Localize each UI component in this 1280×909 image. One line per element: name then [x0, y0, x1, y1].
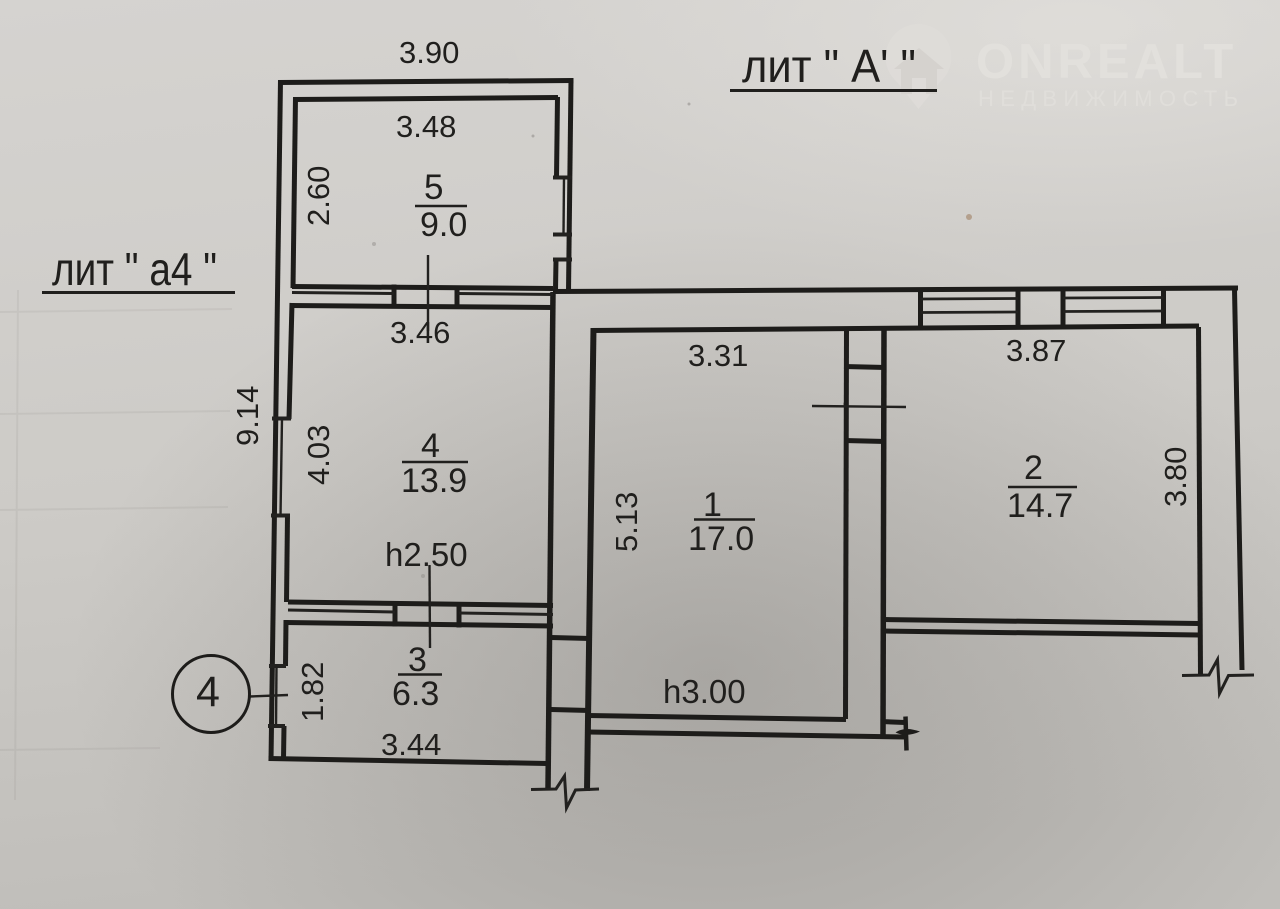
room 5 right window jamb bottom — [553, 258, 572, 262]
dimension tick through band 4/3 — [428, 565, 431, 648]
wall band 4/3 bottom line — [286, 623, 554, 627]
room 3 left window glazing — [275, 666, 278, 726]
room 5 right window jamb top — [553, 176, 572, 180]
thin lines: window glazing, dimension ticks, break lines — [249, 178, 1254, 809]
logo pin icon — [886, 24, 952, 109]
wall band between rooms 5 and 4: top line — [292, 287, 553, 289]
svg-text:9.0: 9.0 — [420, 206, 467, 244]
room 2 bottom outer wall — [884, 631, 1199, 635]
svg-text:9.14: 9.14 — [230, 386, 265, 446]
svg-text:2.60: 2.60 — [301, 166, 336, 226]
top wall window 1 left jamb — [918, 291, 923, 328]
лит А' underline — [730, 89, 937, 92]
ONREALT watermark logo — [886, 24, 1238, 111]
wall band 4/3 middle line right — [459, 613, 553, 615]
room 5 fraction line — [415, 205, 467, 208]
dimension tick below room 5 label — [427, 255, 429, 331]
top wall window 1 glazing lower — [921, 311, 1019, 314]
svg-text:5.13: 5.13 — [609, 492, 644, 552]
svg-text:ONREALT: ONREALT — [976, 35, 1237, 89]
room 4 inner left wall upper — [289, 303, 292, 419]
room 3 left window jamb top — [269, 664, 286, 668]
stamp circle 4 — [173, 656, 250, 733]
top wall window 1 glazing upper — [921, 297, 1019, 300]
faint paper specks — [372, 103, 972, 579]
wall band 5/4 bottom line — [290, 306, 553, 308]
partition bottom short line — [881, 722, 905, 723]
room 3 bottom wall — [269, 759, 548, 764]
лит А' title — [42, 40, 937, 295]
svg-text:3.44: 3.44 — [381, 727, 441, 762]
left outer wall full height — [271, 80, 281, 761]
room 4 inner left wall lower — [287, 515, 288, 602]
svg-text:3.87: 3.87 — [1006, 333, 1066, 368]
top wall window 2 glazing upper — [1063, 296, 1164, 299]
svg-text:3.80: 3.80 — [1158, 447, 1193, 507]
room 4 left window jamb bottom — [271, 514, 290, 518]
svg-text:13.9: 13.9 — [401, 462, 467, 500]
partition rung 1 — [844, 367, 886, 368]
svg-text:3.31: 3.31 — [688, 338, 748, 373]
wall band 5/4 jamb right — [455, 286, 460, 310]
room 5 outer top wall — [278, 81, 574, 83]
room 5 right window jamb mid — [553, 233, 572, 237]
wall band 5/4 jamb left — [392, 285, 397, 309]
building top wall inner (right section) — [591, 326, 1199, 331]
wall band 4/3 jamb right — [457, 602, 462, 628]
svg-text:4.03: 4.03 — [301, 425, 336, 485]
room 3 fraction line — [398, 673, 442, 676]
building right wall inner (room 2) — [1199, 327, 1201, 675]
building right wall outer — [1235, 289, 1243, 670]
top wall window 1 right jamb — [1016, 291, 1021, 328]
room 5 inner left wall — [293, 97, 296, 288]
svg-text:лит " А' ": лит " А' " — [742, 40, 916, 92]
top wall window 2 left jamb — [1061, 291, 1066, 328]
dimension tick through partition 1/2 — [812, 406, 906, 407]
section mark vertical tick — [906, 717, 907, 751]
partition rung 2 — [844, 441, 886, 442]
svg-text:лит " а4 ": лит " а4 " — [52, 243, 217, 295]
corridor rung at y638 — [551, 638, 590, 639]
svg-text:4: 4 — [421, 427, 440, 465]
wall band 4/3 middle line left — [288, 610, 395, 612]
room 5 right outer wall — [569, 80, 572, 292]
svg-text:3.46: 3.46 — [390, 315, 450, 350]
building top wall outer (right section) — [553, 288, 1238, 292]
svg-text:h3.00: h3.00 — [663, 673, 746, 710]
room 5 right inner wall upper — [557, 97, 558, 178]
room 3 inner left wall lower — [281, 726, 287, 759]
room 1 bottom inner wall — [588, 716, 846, 720]
logo house inside pin — [894, 48, 944, 94]
faint show-through ruled lines, left margin — [0, 290, 232, 800]
wall band 4/3 jamb left — [393, 601, 398, 627]
top wall window 2 glazing lower — [1063, 310, 1164, 313]
room 1 left wall V2 — [587, 328, 594, 791]
bottom outer long wall with section mark — [588, 732, 906, 737]
room 5 right window glazing — [562, 178, 565, 235]
svg-text:4: 4 — [196, 668, 220, 716]
room 4 left window glazing — [281, 418, 283, 516]
wall band 5/4 middle line right — [457, 294, 553, 295]
svg-text:17.0: 17.0 — [688, 520, 754, 558]
corridor rung at y710 — [551, 710, 590, 711]
room 1/2 partition right line — [883, 328, 884, 738]
leader line from circle 4 — [249, 695, 288, 697]
break line right (room 2 wall) — [1182, 660, 1254, 694]
svg-text:3.48: 3.48 — [396, 109, 456, 144]
room 5 right inner wall lower — [553, 260, 559, 290]
room 4 fraction line — [402, 461, 468, 464]
svg-text:2: 2 — [1024, 449, 1043, 487]
break line bottom left — [531, 776, 599, 808]
corridor wall V1 (rooms 4/3 right wall) — [548, 292, 553, 789]
room 1 fraction line — [694, 518, 755, 521]
svg-text:5: 5 — [424, 168, 443, 207]
room 3 inner left wall upper — [283, 620, 289, 666]
svg-text:14.7: 14.7 — [1007, 487, 1073, 525]
svg-text:h2.50: h2.50 — [385, 536, 468, 573]
wall band between rooms 4 and 3: top line — [288, 602, 553, 606]
section arrow lens at bottom — [896, 729, 921, 735]
svg-text:1.82: 1.82 — [295, 662, 330, 722]
room 1/2 partition left line — [846, 328, 847, 719]
top wall window 2 right jamb — [1161, 290, 1166, 327]
room 2 fraction line — [1008, 486, 1077, 489]
room 4 left window jamb top — [272, 417, 291, 421]
wall band 5/4 middle line left — [292, 293, 394, 294]
svg-text:6.3: 6.3 — [392, 675, 439, 713]
лит а4 underline — [42, 291, 235, 294]
room 2 bottom inner wall — [884, 620, 1199, 624]
svg-text:3.90: 3.90 — [399, 35, 459, 70]
room 5 inner top wall — [294, 98, 558, 100]
room 3 left window jamb bottom — [268, 724, 285, 728]
